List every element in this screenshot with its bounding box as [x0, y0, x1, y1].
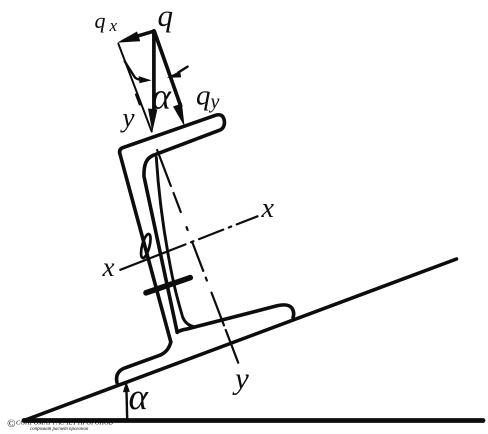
alpha leader right arrowhead: [167, 71, 182, 78]
channel bottom flange left foot: [117, 342, 171, 383]
channel web and top flange: [120, 115, 225, 342]
eyelet mark on web: [139, 233, 152, 259]
q arrowhead: [148, 109, 157, 133]
svg-text:α: α: [152, 77, 173, 118]
load q arrow shaft: [152, 31, 156, 110]
svg-text:y: y: [232, 361, 249, 396]
angle alpha left leader: [125, 62, 140, 80]
svg-text:y: y: [120, 103, 135, 133]
alpha leader left arrowhead: [139, 76, 152, 83]
q_y arrowhead: [173, 103, 185, 126]
component q_x arrow shaft: [137, 31, 154, 36]
parallelogram side: [118, 44, 151, 132]
svg-text:α: α: [129, 377, 150, 418]
svg-text:q: q: [158, 0, 174, 33]
inclined roof line: [24, 259, 457, 421]
svg-text:y: y: [209, 91, 220, 113]
channel bottom flange right part: [177, 305, 293, 332]
svg-text:©: ©: [7, 418, 16, 430]
svg-text:СОПРОМАТ РАСЧЕТ ПРОГОНОВ: СОПРОМАТ РАСЧЕТ ПРОГОНОВ: [16, 420, 113, 427]
component q_y arrow shaft: [154, 31, 180, 106]
angle alpha right leader: [179, 67, 188, 73]
angle alpha arrow bottom: [125, 391, 128, 420]
svg-text:x: x: [109, 16, 118, 35]
svg-text:x: x: [102, 252, 115, 282]
svg-text:x: x: [261, 193, 275, 224]
inner web contour line: [156, 158, 194, 327]
bottom alpha arrowhead: [123, 381, 130, 392]
x principal axis (dash-dot): [120, 216, 257, 269]
svg-text:сопромат расчет прогонов: сопромат расчет прогонов: [30, 427, 89, 432]
svg-text:q: q: [196, 80, 211, 112]
thick tick across web: [146, 278, 190, 293]
ground base line: [24, 418, 483, 423]
svg-text:q: q: [95, 8, 106, 33]
q_x arrowhead: [117, 32, 140, 43]
y principal axis (dash-dot): [136, 95, 241, 370]
